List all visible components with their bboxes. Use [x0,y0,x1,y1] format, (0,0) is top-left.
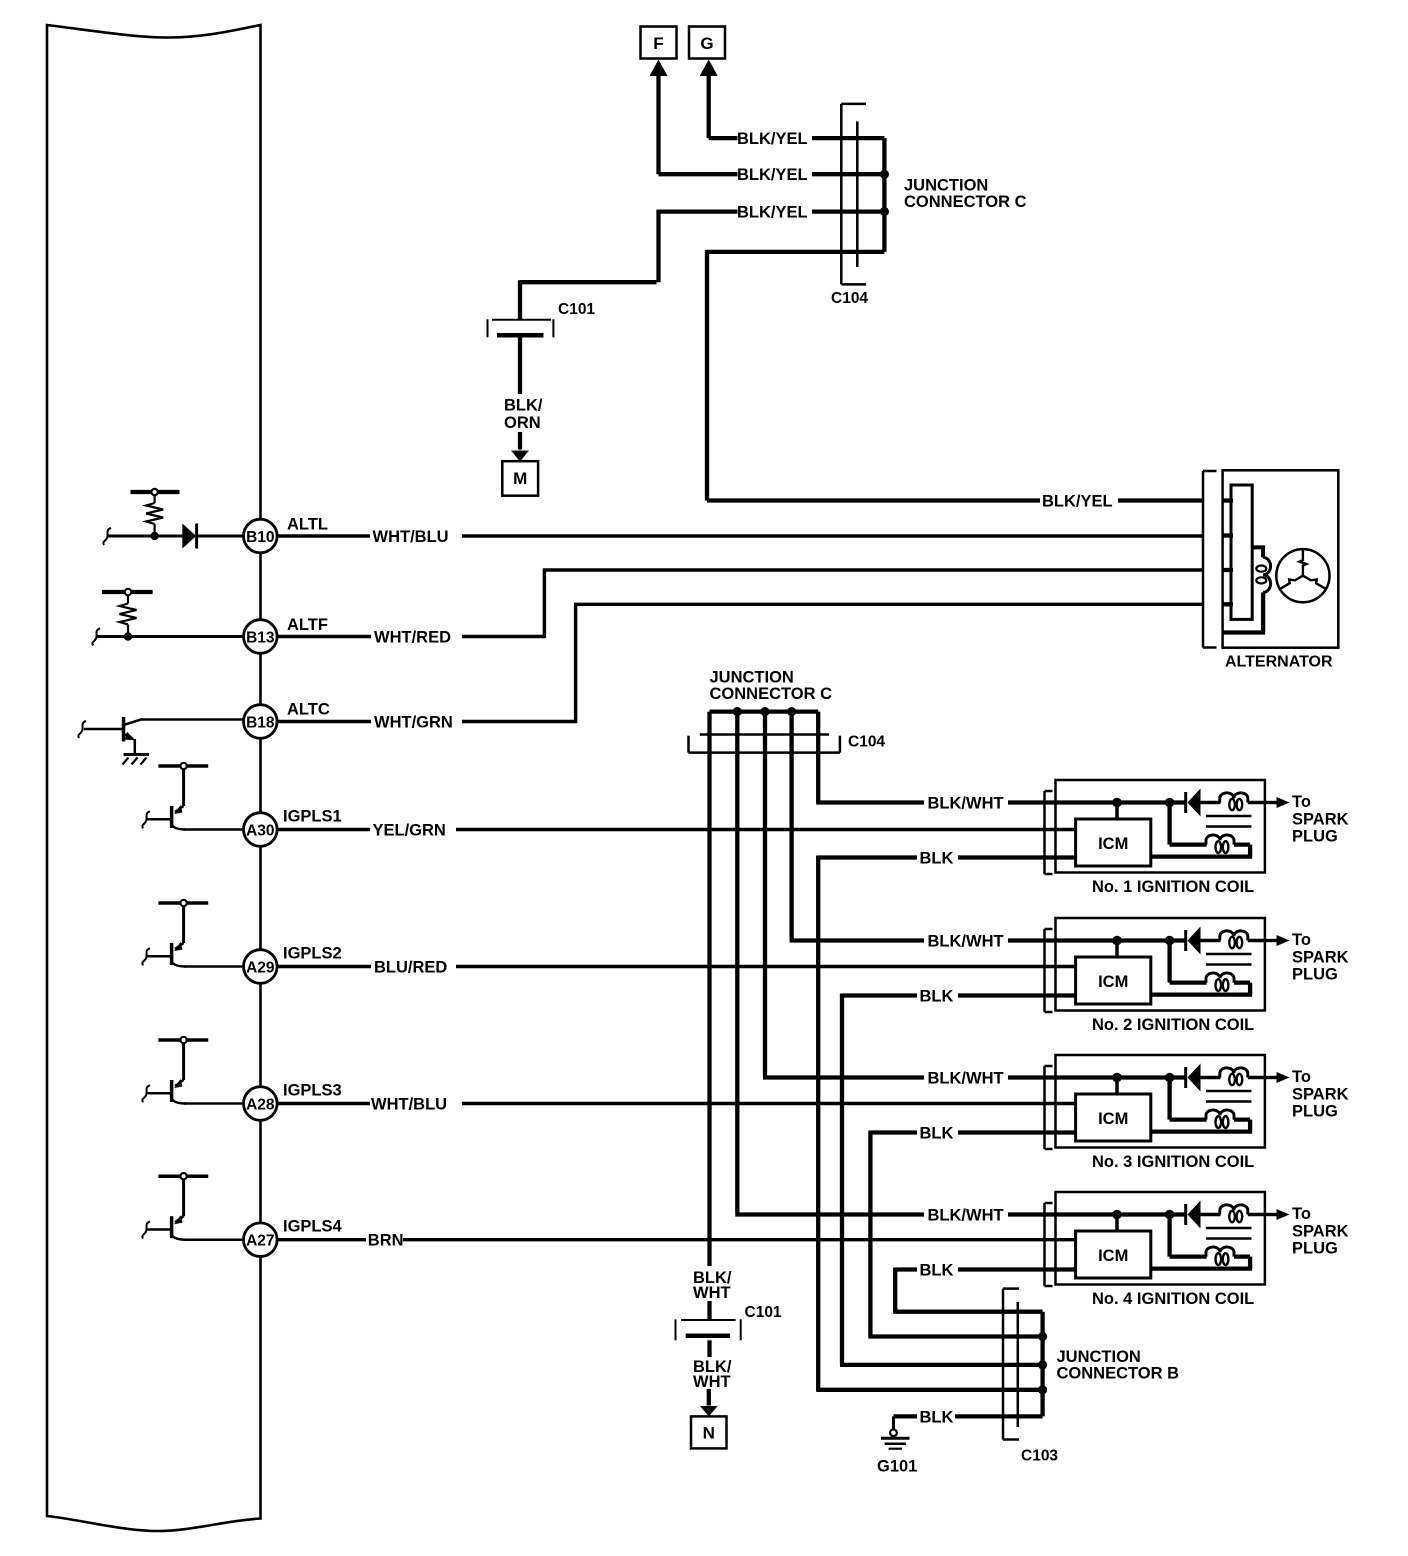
svg-text:PLUG: PLUG [1292,828,1338,846]
rail tap circle [151,489,157,495]
junction dot [150,532,158,540]
svg-text:BLK: BLK [920,1262,954,1280]
svg-text:M: M [513,469,527,488]
svg-text:SPARK: SPARK [1292,1086,1349,1104]
wire to B18 [140,718,244,721]
C104 bus bar [882,138,886,252]
svg-text:BLK/WHT: BLK/WHT [928,933,1004,951]
secondary winding No.1 [1201,801,1221,804]
svg-text:WHT: WHT [693,1373,731,1391]
svg-text:JUNCTION: JUNCTION [1057,1348,1141,1366]
svg-text:CONNECTOR C: CONNECTOR C [904,193,1027,211]
wire BLK/WHT to No.4 coil [735,1212,924,1216]
primary winding No.3 [1167,1078,1171,1120]
svg-text:WHT/BLU: WHT/BLU [371,1096,447,1114]
svg-text:ALTERNATOR: ALTERNATOR [1225,654,1333,671]
wire BLK/YEL pin2 (to F) [659,172,738,176]
wire pin3 route down-left to C101 [656,210,660,283]
wire BLK from No.3 ICM to C103 [958,1130,1076,1134]
svg-text:CONNECTOR C: CONNECTOR C [710,685,833,703]
svg-text:BLK: BLK [920,988,954,1006]
driver transistor for A29 [158,901,208,905]
ground (B18 emitter) [124,753,150,756]
svg-text:BLK/WHT: BLK/WHT [928,1207,1004,1225]
driver transistor for A27 [158,1174,208,1178]
svg-text:BRN: BRN [368,1232,404,1250]
svg-text:IGPLS1: IGPLS1 [283,808,342,826]
arrow to N [707,1389,711,1406]
wire C104 pin1 down to C101 [707,712,711,1266]
junction dot [880,170,889,179]
svg-text:C101: C101 [558,301,595,318]
svg-text:BLK/YEL: BLK/YEL [1042,493,1113,511]
svg-text:PLUG: PLUG [1292,1103,1338,1121]
svg-text:N: N [703,1424,715,1443]
svg-text:WHT/RED: WHT/RED [374,629,451,647]
transformer core No.1 [1206,815,1252,818]
pin B10 [243,519,277,553]
pin A27 [243,1223,277,1257]
junction connector C103 strip [1002,1289,1005,1440]
junction dot [1112,1073,1122,1083]
svg-text:C103: C103 [1021,1448,1058,1465]
diode in No.3 coil [1184,1067,1187,1088]
wire transistor to A29 [184,965,244,968]
svg-text:B18: B18 [246,714,275,731]
svg-text:IGPLS3: IGPLS3 [283,1082,342,1100]
rail tap circle [125,589,131,595]
svg-text:C104: C104 [848,734,885,751]
svg-text:BLK: BLK [920,1125,954,1143]
lead break hook [92,629,100,646]
junction dot [880,207,889,216]
wire C104 pin4 down (to No.2 coil) [789,712,793,941]
svg-text:G101: G101 [877,1458,917,1476]
arrow to M [518,432,522,450]
svg-text:No. 1 IGNITION COIL: No. 1 IGNITION COIL [1092,878,1254,896]
wire YEL/GRN (A30 to No.1 ICM) [277,828,370,831]
svg-text:C104: C104 [831,290,868,307]
svg-text:WHT/GRN: WHT/GRN [374,714,453,732]
junction connector C104 (lower) strip [689,751,840,754]
svg-text:To: To [1292,1205,1311,1223]
svg-text:No. 2 IGNITION COIL: No. 2 IGNITION COIL [1092,1016,1254,1034]
svg-text:BLK: BLK [920,850,954,868]
ICM U2 [1115,941,1119,958]
svg-text:A27: A27 [246,1233,274,1250]
coil connector bracket No.1 [1043,791,1046,874]
wire transistor to A28 [184,1102,244,1105]
wire BLU/RED (A29 to No.2 ICM) [277,965,371,968]
wire C104 pin2 down (to No.4 coil) [735,712,739,1213]
junction dot [1165,798,1175,808]
svg-text:BLK/YEL: BLK/YEL [737,130,808,148]
transistor at B18 [78,721,86,738]
junction dot [1038,1360,1047,1369]
svg-text:BLK: BLK [920,1408,954,1426]
arrow to G [700,60,718,77]
svg-text:ORN: ORN [504,414,541,432]
wire C104 pin3 down (to No.3 coil) [763,712,767,1077]
svg-text:ICM: ICM [1098,973,1128,991]
junction dot [787,707,796,716]
svg-text:ICM: ICM [1098,1110,1128,1128]
wire WHT/BLU to alternator [277,534,370,537]
primary winding No.1 [1167,803,1171,845]
alternator pin stubs [1222,498,1233,502]
pin A29 [243,950,277,984]
No.4 ignition coil box [1056,1192,1265,1285]
svg-text:B13: B13 [246,629,275,646]
wire BLK/ORN [518,337,522,394]
ground G101 [892,1416,895,1429]
connector C101 (top) [492,319,551,321]
arrow to spark plug No.4 [1265,1213,1278,1216]
svg-text:To: To [1292,793,1311,811]
lead break hook [103,528,111,545]
terminal box M [502,461,538,496]
arrow to spark plug No.2 [1265,939,1278,942]
stator (generator) symbol [1276,549,1329,602]
secondary winding No.4 [1201,1213,1221,1216]
junction dot [1038,1332,1047,1341]
svg-text:JUNCTION: JUNCTION [710,669,794,687]
wire BLK/WHT to No.1 coil [816,800,924,804]
wire BLK from No.1 ICM to C103 [958,855,1076,859]
svg-text:A28: A28 [246,1096,275,1113]
wire BLK from No.4 ICM to C103 [958,1267,1076,1271]
svg-text:ICM: ICM [1098,835,1128,853]
svg-text:G: G [700,34,713,53]
field winding (rotor) [1252,547,1263,557]
alternator box [1223,470,1339,647]
svg-text:SPARK: SPARK [1292,949,1349,967]
svg-text:C101: C101 [745,1304,782,1321]
svg-text:BLK/WHT: BLK/WHT [928,795,1004,813]
diode in No.4 coil [1184,1204,1187,1225]
svg-text:No. 3 IGNITION COIL: No. 3 IGNITION COIL [1092,1153,1254,1171]
alternator pin strip [1231,485,1252,619]
junction dot [733,707,742,716]
svg-text:No. 4 IGNITION COIL: No. 4 IGNITION COIL [1092,1290,1254,1308]
pin B13 [243,620,277,654]
ECM/PCM module (torn band) [47,25,261,1531]
junction connector C104 (top) [840,104,843,285]
resistor at B10 [154,495,156,503]
coil connector bracket No.4 [1043,1203,1046,1286]
terminal box G [689,27,725,59]
ICM U1 [1115,803,1119,820]
wire BLK/WHT to No.2 coil [790,938,924,942]
wire C104 bus end down (to No.1 coil) [816,712,820,803]
coil connector bracket No.2 [1043,929,1046,1012]
svg-text:BLU/RED: BLU/RED [374,959,447,977]
svg-text:SPARK: SPARK [1292,811,1349,829]
svg-text:BLK/YEL: BLK/YEL [737,166,808,184]
wire BLK/WHT to No.3 coil [763,1075,924,1079]
internal rail for B10 [131,490,180,494]
junction dot [1165,936,1175,946]
junction dot [1165,1073,1175,1083]
arrow to F [650,60,668,77]
junction dot [1112,936,1122,946]
svg-text:PLUG: PLUG [1292,1240,1338,1258]
wire BLK/WHT (lower) [707,1340,711,1357]
ICM U4 [1115,1215,1119,1232]
arrow to spark plug No.3 [1265,1076,1278,1079]
primary winding No.4 [1167,1215,1171,1257]
svg-text:SPARK: SPARK [1292,1223,1349,1241]
svg-text:JUNCTION: JUNCTION [904,177,988,195]
svg-text:ALTL: ALTL [287,516,328,534]
diode in No.1 coil [1184,792,1187,813]
arrow to spark plug No.1 [1265,801,1278,804]
ICM U3 [1115,1078,1119,1095]
svg-text:A29: A29 [246,959,275,976]
svg-text:PLUG: PLUG [1292,966,1338,984]
wire BLK from G101 to C103 [894,1414,918,1418]
junction dot [124,632,132,640]
transformer core No.4 [1206,1227,1252,1230]
No.1 ignition coil box [1056,780,1265,873]
secondary winding No.2 [1201,939,1221,942]
svg-text:CONNECTOR B: CONNECTOR B [1057,1365,1180,1383]
No.3 ignition coil box [1056,1055,1265,1148]
connector C101 (bottom) [681,1319,736,1321]
terminal box F [641,27,677,59]
No.2 ignition coil box [1056,918,1265,1011]
driver transistor for A30 [158,764,208,768]
transformer core No.2 [1206,953,1252,956]
wire BLK/YEL pin1 (to G) [709,136,738,140]
svg-text:To: To [1292,1068,1311,1086]
wire BLK/YEL pin3 (to C101) [659,209,738,213]
wire BRN (A27 to No.4 ICM) [277,1238,366,1241]
svg-text:BLK/: BLK/ [504,397,543,415]
driver transistor for A28 [158,1038,208,1042]
junction dot [1112,1210,1122,1220]
wire WHT/BLU (A28 to No.3 ICM) [277,1102,370,1105]
C104 lower bus bar [710,709,819,713]
primary winding No.2 [1167,941,1171,983]
wire WHT/RED to alternator [277,635,371,638]
svg-text:F: F [653,34,663,53]
C103 bus bar [1040,1312,1044,1417]
svg-text:BLK/YEL: BLK/YEL [737,204,808,222]
diode at B10 [182,524,196,549]
coil connector bracket No.3 [1043,1066,1046,1149]
pin A30 [243,813,277,847]
pin B18 [243,705,277,739]
svg-text:To: To [1292,931,1311,949]
transformer core No.3 [1206,1090,1252,1093]
svg-text:IGPLS4: IGPLS4 [283,1218,343,1236]
internal rail for B13 [102,590,153,594]
secondary winding No.3 [1201,1076,1221,1079]
svg-text:YEL/GRN: YEL/GRN [373,822,446,840]
diode in No.2 coil [1184,930,1187,951]
pin A28 [243,1087,277,1121]
junction dot [760,707,769,716]
svg-text:WHT: WHT [693,1284,731,1302]
svg-text:B10: B10 [246,529,274,546]
svg-text:ALTC: ALTC [287,701,330,719]
junction dot [1112,798,1122,808]
svg-text:ALTF: ALTF [287,616,328,634]
wire WHT/GRN to alternator [277,720,371,723]
resistor at B13 [127,595,129,604]
junction dot [1038,1385,1047,1394]
wire transistor to A27 [184,1238,244,1241]
svg-text:A30: A30 [246,822,274,839]
svg-text:WHT/BLU: WHT/BLU [373,528,449,546]
wire diode to B10 [197,535,244,538]
svg-text:BLK/WHT: BLK/WHT [928,1070,1004,1088]
svg-text:IGPLS2: IGPLS2 [283,945,342,963]
junction dot [1165,1210,1175,1220]
wire BLK from No.2 ICM to C103 [958,993,1076,997]
wire transistor to A30 [184,828,244,831]
wire BLK/YEL to alternator [707,250,884,254]
svg-text:ICM: ICM [1098,1247,1128,1265]
wire to B13 [97,635,244,638]
terminal box N [691,1416,727,1448]
wire to diode [108,535,182,538]
alternator harness connector [1202,471,1205,648]
